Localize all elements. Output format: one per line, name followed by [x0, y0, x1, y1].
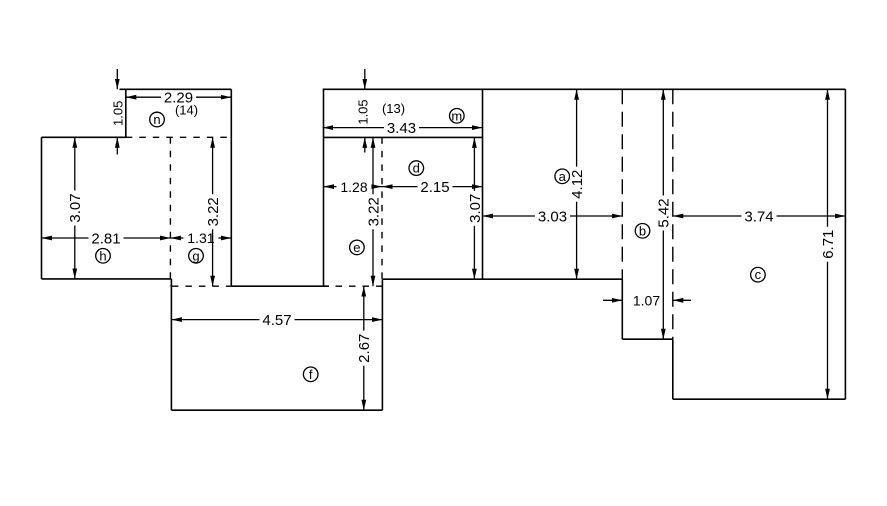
svg-text:1.28: 1.28 — [340, 179, 367, 195]
svg-text:1.05: 1.05 — [111, 101, 126, 126]
svg-text:3.43: 3.43 — [387, 120, 416, 137]
svg-text:(14): (14) — [175, 103, 198, 118]
svg-text:(13): (13) — [382, 101, 405, 116]
svg-text:1.07: 1.07 — [633, 293, 660, 309]
svg-text:3.74: 3.74 — [744, 208, 773, 225]
svg-text:a: a — [559, 169, 567, 184]
svg-text:6.71: 6.71 — [820, 230, 837, 259]
svg-text:5.42: 5.42 — [656, 198, 673, 227]
svg-text:1.05: 1.05 — [355, 99, 370, 124]
svg-text:g: g — [192, 248, 199, 263]
svg-text:3.22: 3.22 — [205, 197, 222, 226]
svg-text:n: n — [153, 112, 160, 127]
svg-text:d: d — [413, 161, 420, 176]
svg-text:c: c — [755, 267, 762, 282]
svg-text:4.57: 4.57 — [262, 312, 291, 329]
svg-text:f: f — [309, 367, 313, 382]
svg-text:1.31: 1.31 — [187, 230, 214, 246]
svg-text:3.07: 3.07 — [67, 193, 84, 222]
svg-text:3.22: 3.22 — [365, 197, 382, 226]
svg-text:e: e — [353, 240, 360, 255]
svg-text:2.15: 2.15 — [420, 179, 449, 196]
svg-text:b: b — [639, 223, 646, 238]
svg-text:h: h — [99, 248, 106, 263]
svg-text:3.03: 3.03 — [538, 208, 567, 225]
svg-text:2.67: 2.67 — [356, 334, 373, 363]
svg-text:2.81: 2.81 — [91, 230, 120, 247]
svg-text:4.12: 4.12 — [569, 170, 586, 199]
svg-text:3.07: 3.07 — [467, 194, 484, 223]
svg-text:m: m — [451, 108, 462, 123]
